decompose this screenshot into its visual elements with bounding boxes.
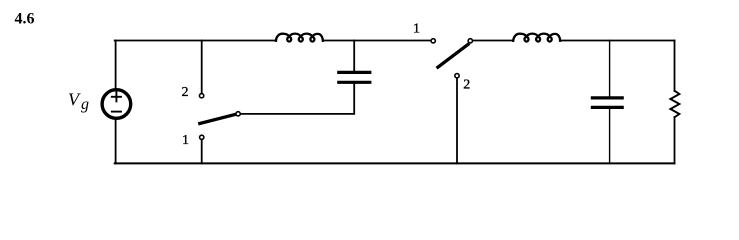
wire: top rail right segment [560, 40, 675, 42]
svg-text:2: 2 [182, 85, 189, 100]
wire: right vertical bottom [674, 117, 676, 163]
voltage source plus sign [112, 92, 121, 101]
capacitor C2 top plate [592, 96, 622, 99]
capacitor C2 bottom plate [592, 106, 622, 109]
svg-text:4.6: 4.6 [15, 11, 35, 28]
switch SW1 blade [200, 115, 235, 124]
switch SW1 pole contact [236, 112, 240, 116]
wire: switch1 terminal2 drop from top rail [201, 41, 203, 93]
svg-text:1: 1 [413, 21, 420, 36]
switch SW2 terminal 2 contact [455, 74, 459, 78]
wire: right vertical top (to resistor) [674, 41, 676, 91]
voltage source Vg circle [102, 90, 131, 119]
wire: C2 top lead [609, 41, 611, 97]
svg-text:V: V [68, 90, 81, 110]
svg-text:1: 1 [182, 133, 189, 148]
wire: SW1 pole to C1 bottom [241, 84, 354, 114]
switch SW2 blade [438, 44, 468, 67]
svg-text:2: 2 [463, 77, 470, 92]
wire: C1 top lead [353, 41, 355, 71]
wire: left vertical top [115, 41, 117, 89]
capacitor C1 bottom plate [339, 81, 370, 84]
capacitor C1 top plate [339, 71, 370, 74]
switch SW1 terminal 1 contact [200, 135, 204, 139]
switch SW2 terminal 1 contact [431, 39, 435, 43]
wire: SW2 terminal2 to bottom rail [456, 79, 458, 164]
inductor L2 [513, 34, 560, 42]
svg-text:g: g [81, 96, 89, 113]
switch SW1 terminal 2 contact [199, 94, 203, 98]
wire: SW2 pole to L2 [473, 40, 513, 42]
wire: left vertical bottom [115, 120, 117, 163]
wire: switch1 terminal1 to bottom rail [201, 140, 203, 163]
voltage source minus sign [112, 111, 121, 113]
wire: bottom rail [115, 162, 675, 164]
switch SW2 pole contact [468, 39, 472, 43]
resistor R zigzag [670, 91, 679, 117]
wire: top rail left segment [115, 40, 277, 42]
wire: top rail between L1 and C1/SW2 [323, 40, 430, 42]
inductor L1 [276, 34, 323, 42]
wire: C2 bottom lead [609, 109, 611, 163]
